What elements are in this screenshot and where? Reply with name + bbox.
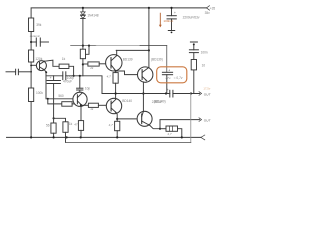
node dot2 wiper bbox=[88, 45, 90, 47]
svg-text:47u: 47u bbox=[165, 76, 170, 80]
feedback line vertical bbox=[190, 94, 192, 143]
zobel chain bbox=[189, 42, 198, 94]
resistor R4 1k bbox=[59, 64, 69, 68]
terminal OUT2 arrow bbox=[199, 118, 202, 122]
svg-text:17,5v: 17,5v bbox=[203, 87, 210, 91]
node dot1 bbox=[82, 45, 84, 47]
node 1k/X bbox=[73, 75, 75, 77]
wire Q1 emitter bbox=[45, 70, 47, 76]
svg-text:1k: 1k bbox=[62, 57, 66, 61]
svg-text:100mA: 100mA bbox=[163, 19, 174, 23]
node X Q2 bbox=[79, 75, 81, 77]
resistor R1 39k bbox=[29, 18, 34, 32]
svg-text:+: + bbox=[168, 69, 170, 73]
terminal OUT1 arrow bbox=[199, 92, 202, 96]
output rail bbox=[102, 93, 170, 95]
svg-text:470uF: 470uF bbox=[63, 80, 72, 84]
transistor Q6 bbox=[106, 94, 121, 114]
trimmer RV1 bbox=[80, 46, 89, 76]
svg-text:2200uF: 2200uF bbox=[152, 100, 163, 104]
svg-text:OUT: OUT bbox=[204, 93, 212, 97]
resistor R8 47 bbox=[78, 121, 83, 138]
svg-text:BD140: BD140 bbox=[122, 99, 132, 103]
svg-text:OUT: OUT bbox=[204, 119, 212, 123]
feedback line horizontal bbox=[66, 141, 191, 143]
node Q1 emitter bbox=[45, 71, 47, 73]
top supply rail bbox=[31, 8, 206, 18]
capacitor C3 100p bbox=[63, 72, 66, 80]
wire base node riser bbox=[30, 65, 32, 72]
resistor R11 4.7 upper bbox=[113, 71, 118, 94]
wire feedback node bbox=[54, 118, 66, 122]
node A bbox=[30, 41, 32, 43]
svg-text:35v: 35v bbox=[205, 11, 211, 15]
capacitor C7 bootstrap 47u bbox=[162, 69, 172, 94]
svg-text:+: + bbox=[50, 76, 52, 80]
svg-text:10: 10 bbox=[202, 63, 206, 67]
wire Q6 emitter to Q4 base bbox=[117, 118, 136, 120]
resistor R10 2k to Q3 base bbox=[83, 62, 107, 66]
capacitor C2 ceramic bbox=[31, 38, 48, 46]
capacitor C5 10p bbox=[77, 88, 83, 93]
transistor Q1 bbox=[36, 61, 46, 71]
node 4.7 upper bottom bbox=[115, 92, 117, 94]
capacitor C1 input bbox=[16, 69, 32, 75]
svg-text:≈ 0,7v: ≈ 0,7v bbox=[174, 76, 183, 80]
terminal ground bbox=[201, 135, 205, 140]
terminal +35v bbox=[207, 6, 210, 10]
svg-text:120k: 120k bbox=[35, 57, 42, 61]
svg-text:10p: 10p bbox=[85, 87, 91, 91]
wire W2 collector rail bbox=[116, 49, 149, 51]
node Q6 emitter bbox=[116, 118, 118, 120]
wire A bias rail bbox=[71, 45, 96, 47]
node Q2 emitter bbox=[80, 104, 82, 106]
wire Q6 emitter node bbox=[116, 113, 119, 119]
node output totem bbox=[142, 92, 144, 94]
svg-text:56: 56 bbox=[46, 124, 50, 128]
transistor Q5 bbox=[138, 67, 153, 82]
wire A corner into bootstrap bbox=[166, 46, 168, 73]
svg-text:2200uF/63v: 2200uF/63v bbox=[183, 16, 200, 20]
wire Q5/Q4 totem bbox=[142, 94, 144, 112]
wire Q1 base bbox=[31, 64, 36, 66]
wire 39k bottom to node A bbox=[30, 32, 32, 51]
ground rail bbox=[7, 136, 201, 138]
wire 120k to base node bbox=[30, 62, 32, 65]
wire Q5 emitter bbox=[142, 82, 144, 94]
node bootstrap bottom bbox=[165, 92, 167, 94]
wire 100k to ground rail bbox=[30, 102, 32, 138]
node supply cap top bbox=[170, 7, 172, 9]
node V1 top bbox=[148, 7, 150, 9]
svg-text:(BD139): (BD139) bbox=[151, 57, 163, 61]
svg-text:ceramic: ceramic bbox=[30, 34, 41, 38]
svg-text:100k: 100k bbox=[36, 91, 43, 95]
svg-text:560: 560 bbox=[58, 94, 64, 98]
rail node dots bbox=[30, 136, 32, 138]
wire Q2 collector from node X bbox=[79, 76, 81, 88]
svg-text:1k: 1k bbox=[90, 107, 94, 111]
svg-text:1k: 1k bbox=[69, 122, 73, 126]
svg-text:2k: 2k bbox=[89, 66, 94, 70]
diode D1 bbox=[81, 8, 86, 15]
resistor R6 1k feedback bbox=[63, 122, 68, 143]
node feedback bbox=[53, 117, 55, 119]
resistor R5 56 bbox=[51, 118, 56, 137]
svg-text:+: + bbox=[174, 11, 176, 15]
node output/zobel bbox=[190, 92, 192, 94]
wire Q2 emitter down bbox=[80, 105, 82, 120]
node input junction bbox=[30, 71, 32, 73]
wire to OUT2 bbox=[160, 120, 200, 129]
node 560 riser bbox=[47, 98, 49, 100]
svg-text:100n: 100n bbox=[201, 51, 208, 55]
resistor R9 1k to Q6 bbox=[81, 103, 106, 107]
svg-text:4,7: 4,7 bbox=[109, 123, 114, 127]
svg-text:47: 47 bbox=[74, 122, 78, 126]
svg-text:BD139: BD139 bbox=[123, 57, 133, 61]
svg-text:4,7: 4,7 bbox=[167, 132, 172, 136]
wire V1 supply drop bbox=[148, 8, 150, 67]
transistor Q3 bbox=[106, 50, 122, 71]
resistor R3 100k bbox=[29, 88, 34, 102]
transistor Q2 bbox=[73, 92, 87, 106]
capacitor C6 supply 2200uF/63v bbox=[167, 8, 176, 31]
resistor R2 120k bbox=[29, 50, 34, 62]
wire Q3 emitter to Q5 base bbox=[116, 71, 138, 75]
resistor R12 4.7 lower bbox=[115, 119, 120, 137]
wire input bbox=[6, 71, 16, 73]
wire 1k right to node X bbox=[69, 66, 74, 76]
wire 100k top bbox=[30, 72, 32, 88]
orange current arrow bbox=[159, 13, 162, 27]
node trimmer bottom bbox=[82, 63, 84, 65]
svg-text:39k: 39k bbox=[36, 23, 42, 27]
node Q1 base bbox=[30, 65, 32, 67]
svg-text:+35v: +35v bbox=[210, 6, 215, 10]
node Q3 emitter bbox=[115, 70, 117, 72]
resistor R13 4.7 zobel bbox=[160, 126, 182, 137]
transistor Q4 bbox=[137, 111, 152, 126]
wire Q1 emitter down to Q2 base bbox=[46, 76, 74, 99]
svg-text:4,7: 4,7 bbox=[107, 75, 112, 79]
diode D2 bbox=[81, 16, 86, 46]
wire X left bbox=[46, 75, 63, 77]
wire X right to output riser bbox=[66, 76, 102, 94]
wire Q4 emitter bbox=[150, 125, 160, 128]
node diode top bbox=[82, 7, 84, 9]
node W2/V1 bbox=[148, 49, 150, 51]
orange annotation box bbox=[157, 67, 187, 83]
capacitor C4 470uF bbox=[47, 76, 60, 119]
svg-text:1N4148: 1N4148 bbox=[87, 13, 98, 17]
capacitor C8 2200uF output bbox=[167, 88, 200, 97]
resistor R7 560 bbox=[48, 99, 81, 106]
ground symbol supply cap bbox=[168, 31, 174, 34]
node Q4 emitter bbox=[159, 128, 161, 130]
wire Q1 collector to 1k bbox=[45, 60, 60, 66]
